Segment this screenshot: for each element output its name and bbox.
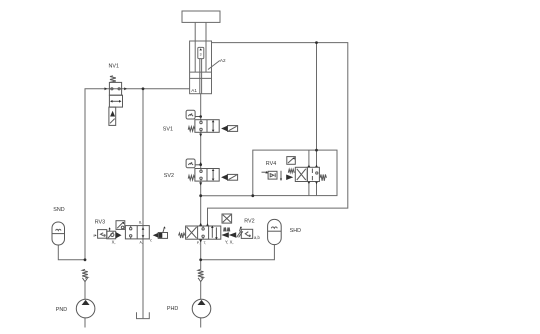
svg-text:a,b: a,b [254,235,260,240]
svg-text:NV1: NV1 [109,63,120,69]
svg-text:RV3: RV3 [95,220,105,226]
svg-text:SV2: SV2 [164,173,174,179]
svg-text:P,: P, [197,241,200,245]
svg-text:T,: T, [204,241,207,245]
svg-text:X,: X, [112,240,116,245]
svg-text:A2: A2 [220,58,226,63]
svg-text:RV2: RV2 [244,219,254,225]
svg-text:3: 3 [200,53,202,57]
svg-text:Y,: Y, [150,239,153,243]
svg-text:a: a [93,234,95,238]
svg-text:RV4: RV4 [266,161,276,167]
svg-text:B,: B, [139,221,142,225]
svg-text:A,: A, [140,241,143,245]
svg-text:PND: PND [56,307,67,313]
svg-text:PHD: PHD [167,306,178,312]
svg-text:SV1: SV1 [163,126,173,132]
svg-text:SND: SND [53,207,64,213]
svg-text:Y, X,: Y, X, [225,239,234,244]
svg-text:A1: A1 [191,88,197,93]
svg-text:SHD: SHD [290,228,301,234]
